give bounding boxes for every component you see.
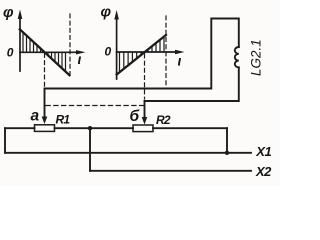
svg-text:X1: X1: [255, 144, 271, 159]
R1 wiper arrow (a): [42, 89, 48, 125]
svg-text:R2: R2: [156, 113, 171, 127]
right graph hatching: [120, 37, 165, 73]
junction node on X1 line: [225, 151, 229, 155]
resistor R1: [35, 125, 55, 132]
left graph hatching: [23, 33, 66, 72]
svg-text:а: а: [31, 107, 40, 124]
svg-text:X2: X2: [255, 164, 272, 179]
resistor R2: [133, 125, 153, 132]
X2 line: [90, 170, 251, 172]
inductor LG2.1: [235, 47, 239, 67]
wire junction down to X2 line: [89, 128, 91, 171]
svg-text:б: б: [130, 108, 140, 125]
svg-text:ι: ι: [78, 51, 82, 67]
svg-text:R1: R1: [56, 113, 71, 127]
right graph dashed vertical at zero crossing: [144, 54, 146, 99]
right graph characteristic line: [117, 35, 166, 75]
right graph x-axis: [117, 50, 185, 54]
R2 wiper arrow (b): [142, 101, 148, 125]
dashed horizontal link: [46, 105, 143, 107]
svg-text:0: 0: [105, 44, 112, 58]
svg-text:φ: φ: [101, 4, 112, 21]
svg-text:ι: ι: [178, 53, 182, 69]
junction node between R1 and R2: [88, 126, 92, 130]
left graph dashed vertical at line end: [69, 14, 71, 74]
svg-text:φ: φ: [3, 4, 14, 21]
wire between R1 and R2: [55, 127, 134, 129]
svg-text:0: 0: [7, 45, 14, 59]
wire right of R2: [153, 127, 227, 129]
wire from R1 wiper to coil top (wire A): [45, 19, 239, 89]
wire from coil bottom to R2 wiper (wire B): [145, 67, 239, 101]
right graph y-axis: [114, 10, 119, 79]
right graph dashed vertical at line end: [165, 16, 167, 88]
left graph x-axis: [20, 50, 86, 54]
wire left end down to X1 line: [4, 128, 6, 153]
svg-text:LG2.1: LG2.1: [249, 39, 264, 76]
wire row through resistors: [5, 127, 35, 129]
wire R2 right end down to X1 line: [226, 128, 228, 153]
left graph characteristic line: [20, 29, 70, 75]
left graph y-axis: [18, 10, 23, 72]
left graph dashed vertical at zero crossing: [44, 54, 46, 87]
X1 line: [5, 152, 251, 154]
